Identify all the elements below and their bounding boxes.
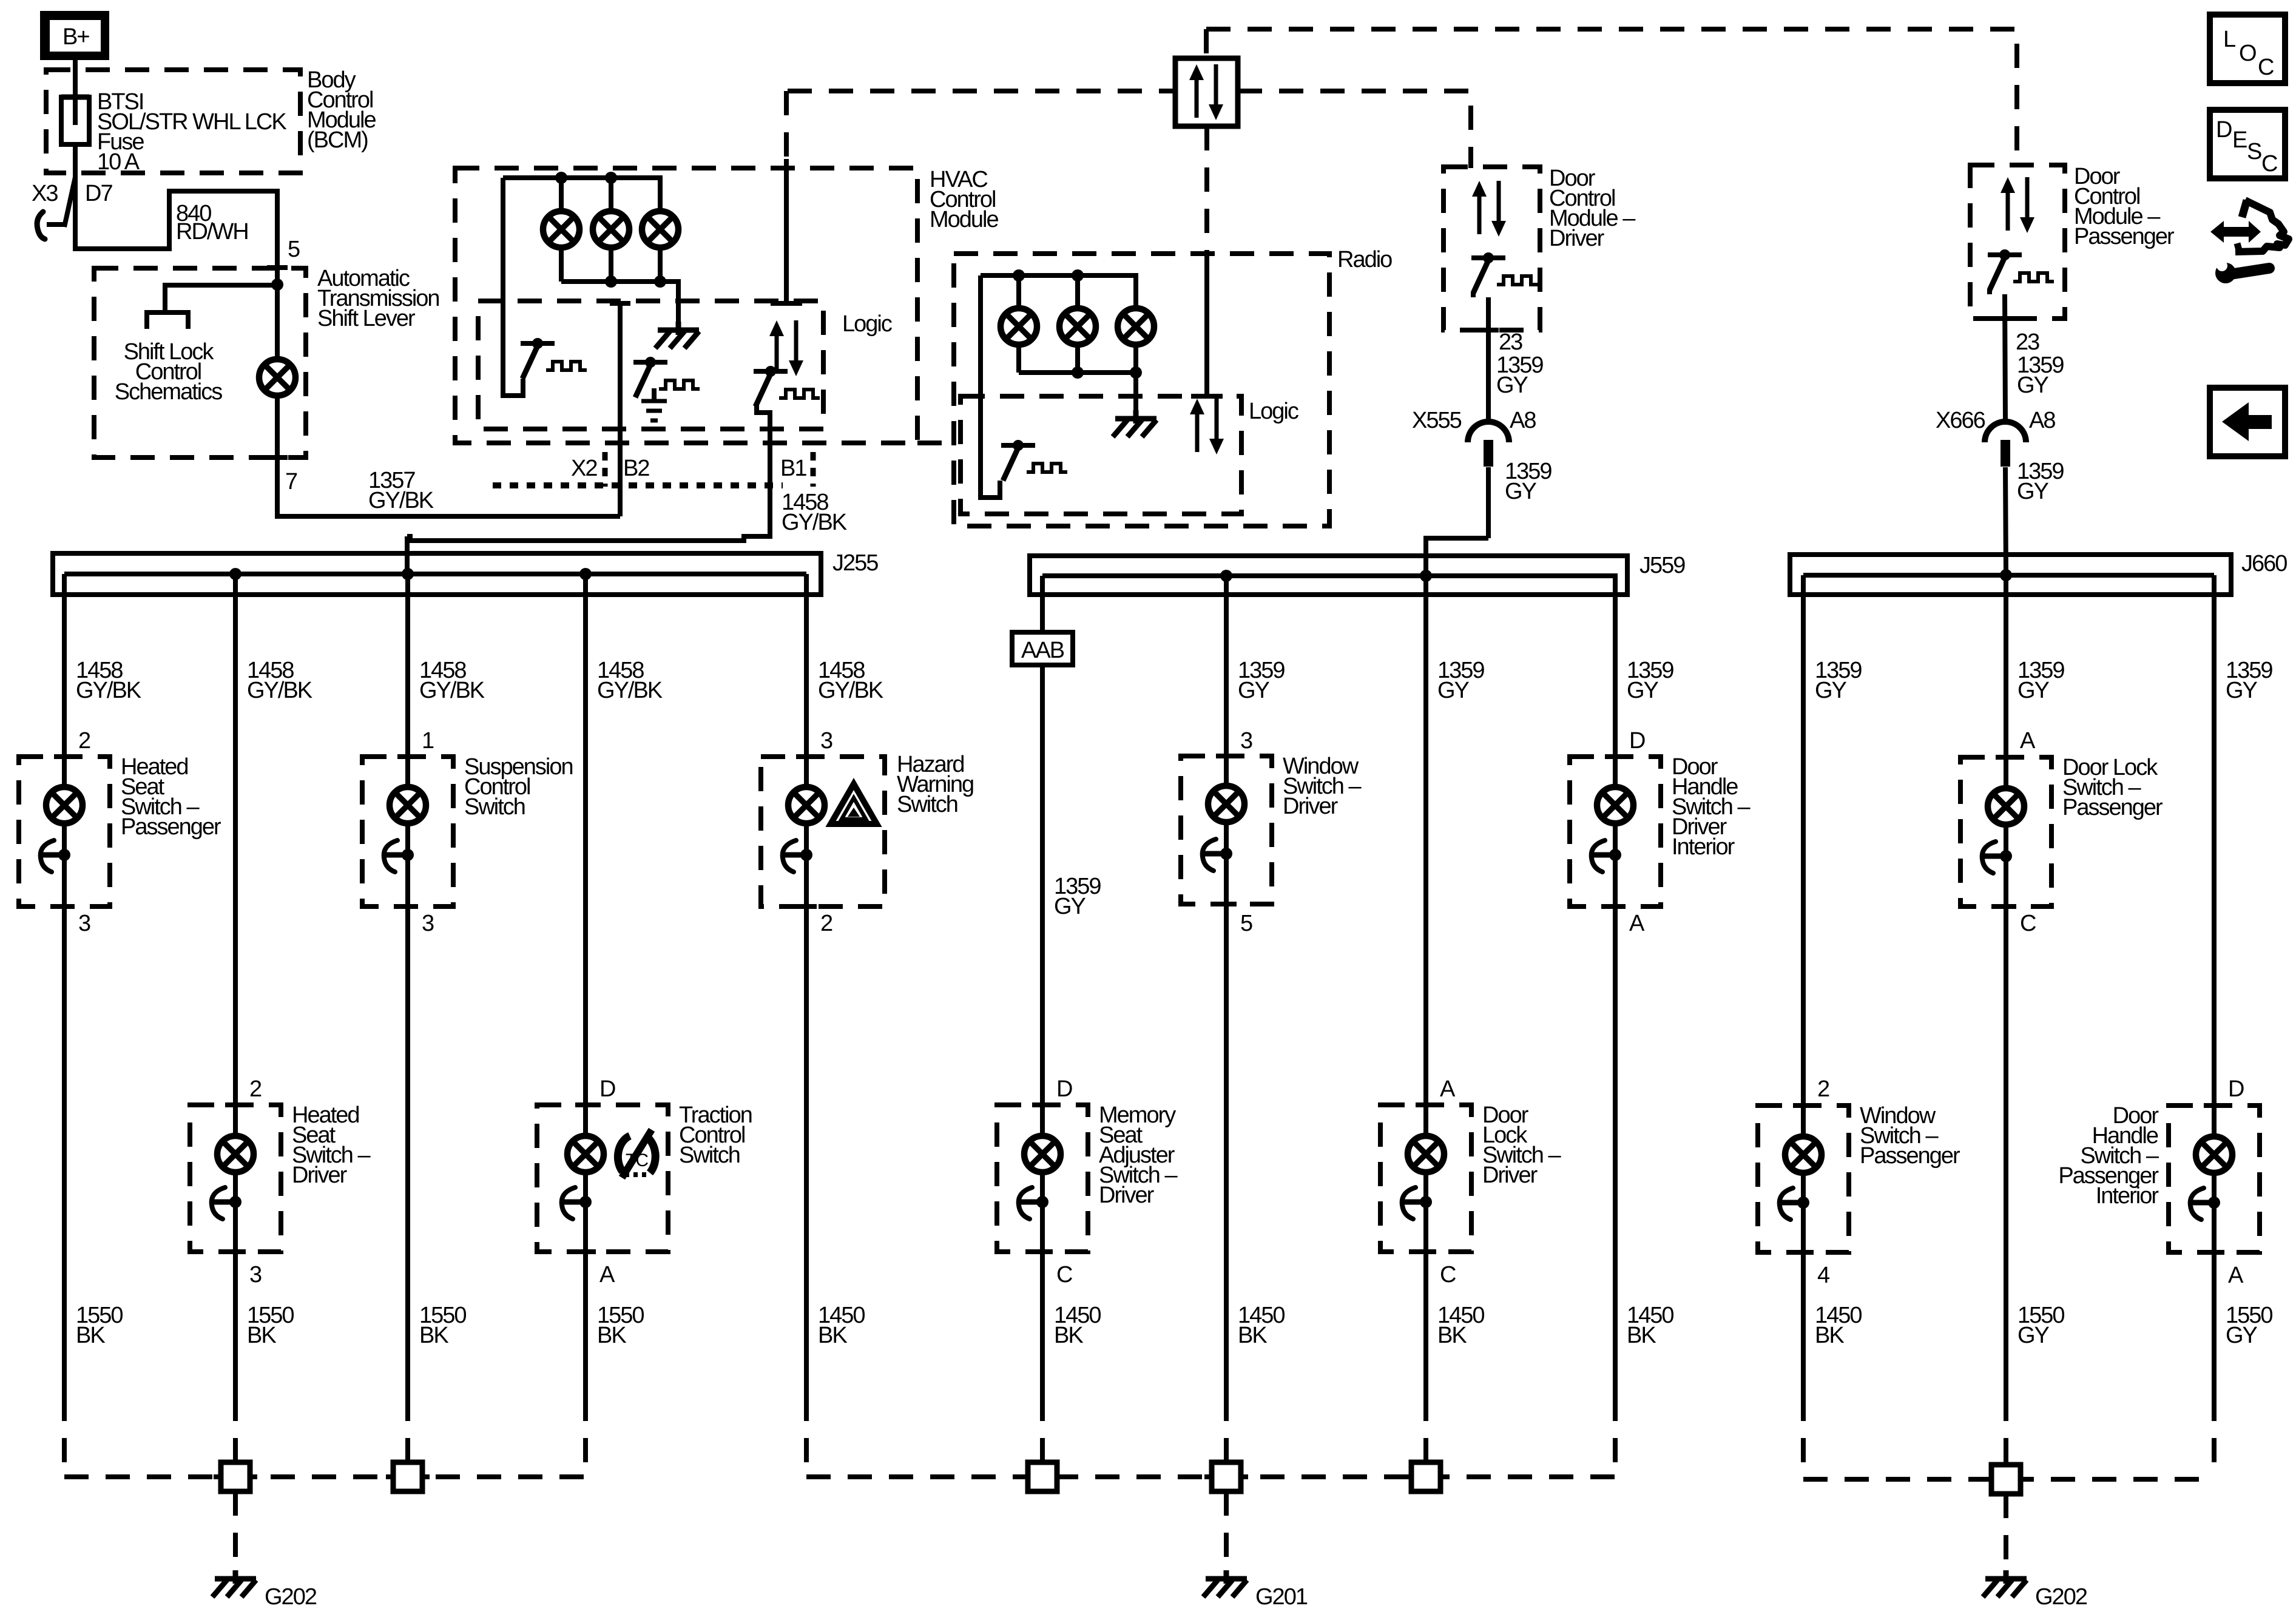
- wire 1359 GY to J660: [2005, 459, 2064, 575]
- svg-text:Passenger: Passenger: [1860, 1143, 1960, 1169]
- svg-text:RD/WH: RD/WH: [176, 219, 248, 245]
- wire fuse down: [73, 144, 78, 177]
- svg-text:1: 1: [422, 728, 434, 754]
- splice square middle 2: [1204, 1462, 1248, 1491]
- svg-text:Driver: Driver: [292, 1163, 348, 1188]
- ground logic earth: [641, 401, 667, 420]
- svg-text:Interior: Interior: [2096, 1183, 2159, 1209]
- switch contact door lock driver: [1402, 1187, 1432, 1219]
- icon box LOC: [2210, 15, 2285, 83]
- svg-text:23: 23: [1499, 329, 1522, 355]
- switch contact window switch driver: [1203, 839, 1232, 871]
- svg-text:BK: BK: [1627, 1323, 1656, 1348]
- lamp suspension control: [390, 757, 426, 906]
- module box HVAC Control Module: [455, 167, 998, 443]
- svg-text:2: 2: [820, 911, 832, 936]
- lamp window switch passenger: [1785, 1106, 1822, 1252]
- svg-text:BK: BK: [818, 1323, 847, 1348]
- ground bus middle dashed: [806, 1474, 1615, 1479]
- switch contact heated seat passenger: [41, 840, 70, 872]
- updown arrows DCM driver: [1472, 181, 1506, 237]
- transistor switch DCM passenger: [1988, 249, 2054, 294]
- svg-text:BK: BK: [1815, 1323, 1844, 1348]
- data link hub box: [1175, 58, 1238, 126]
- svg-text:Schematics: Schematics: [115, 379, 222, 405]
- wire B+ to fuse: [73, 60, 78, 97]
- svg-text:Passenger: Passenger: [121, 814, 221, 840]
- svg-text:D: D: [2216, 117, 2232, 143]
- wire 1550 BK column 4: [586, 1252, 644, 1477]
- wire 1550 BK column 2: [235, 1252, 294, 1462]
- lamp shift lever illumination: [259, 285, 295, 457]
- wire 1359 GY column door handle driver: [1615, 576, 1673, 757]
- svg-text:C: C: [1440, 1262, 1456, 1288]
- wire B2 output: [610, 303, 630, 516]
- splice square left 2: [386, 1462, 430, 1491]
- svg-text:BK: BK: [247, 1323, 276, 1348]
- wire dashed interconnect top: [1206, 29, 2017, 166]
- splice square left 1: [214, 1462, 257, 1491]
- switch contact traction control: [562, 1187, 592, 1219]
- svg-text:GY: GY: [1815, 678, 1847, 703]
- svg-text:D: D: [599, 1076, 615, 1102]
- ground G202 right: [1983, 1570, 2087, 1610]
- updown arrows DCM passenger: [2001, 177, 2034, 233]
- svg-text:2: 2: [249, 1076, 262, 1102]
- svg-text:3: 3: [820, 728, 832, 754]
- svg-text:Shift Lever: Shift Lever: [317, 306, 416, 331]
- switch contact heated seat driver: [212, 1187, 241, 1219]
- lamp HVAC illumination 1: [543, 211, 579, 248]
- splice square right: [1984, 1465, 2028, 1494]
- svg-text:L: L: [2223, 27, 2235, 52]
- svg-text:3: 3: [422, 911, 434, 936]
- shift lock solenoid bracket: [147, 312, 188, 329]
- svg-text:A8: A8: [1510, 408, 1536, 433]
- wire dashed to G202 right: [2004, 1494, 2008, 1573]
- dashed notch HVAC to Radio: [917, 441, 954, 445]
- wire Radio left feed: [981, 275, 1000, 498]
- wire 1450 BK column door handle driver: [1615, 906, 1673, 1477]
- wire 1450 BK column 5: [806, 906, 865, 1477]
- wire 1359 GY to J559: [1426, 459, 1551, 576]
- svg-text:Interior: Interior: [1672, 834, 1735, 860]
- svg-text:3: 3: [249, 1262, 262, 1288]
- wire 1450 BK column AAB: [1042, 1252, 1101, 1462]
- switch contact door handle passenger: [2190, 1188, 2220, 1220]
- svg-text:Switch: Switch: [679, 1143, 740, 1168]
- module box Radio Logic: [961, 396, 1298, 514]
- wire 1450 BK column window driver: [1226, 904, 1285, 1462]
- svg-text:GY: GY: [2017, 1323, 2050, 1348]
- connector X555 pin A8: [1412, 408, 1536, 467]
- transistor switch HVAC output 2: [633, 357, 700, 400]
- switch box Heated Seat Switch - Driver: [190, 1102, 371, 1252]
- ground chassis inside HVAC logic: [655, 322, 699, 348]
- lamp HVAC illumination 3: [642, 211, 678, 248]
- svg-text:3: 3: [78, 911, 90, 936]
- wire branch to shift lock bracket: [165, 285, 277, 312]
- splice square middle 1: [1021, 1462, 1064, 1491]
- svg-text:Module: Module: [930, 207, 998, 232]
- svg-text:GY: GY: [2226, 1323, 2258, 1348]
- svg-text:(BCM): (BCM): [307, 127, 368, 153]
- lamp door lock driver: [1408, 1105, 1444, 1252]
- svg-text:Driver: Driver: [1482, 1163, 1538, 1188]
- svg-text:A8: A8: [2029, 408, 2055, 433]
- svg-text:2: 2: [1817, 1076, 1829, 1102]
- svg-text:G202: G202: [2035, 1584, 2087, 1610]
- svg-text:GY/BK: GY/BK: [247, 678, 312, 703]
- svg-text:5: 5: [1240, 911, 1252, 936]
- svg-text:7: 7: [285, 469, 297, 495]
- svg-text:BK: BK: [1437, 1323, 1467, 1348]
- wire 1458 GY/BK column 4: [586, 574, 663, 1105]
- wire dashed HVAC to hub: [788, 89, 1175, 93]
- switch box Window Switch - Driver: [1181, 754, 1362, 904]
- wire 1359 GY column window driver: [1226, 576, 1285, 756]
- wire 1359 GY column door lock driver: [1426, 576, 1484, 1105]
- svg-text:BK: BK: [76, 1323, 105, 1348]
- splice pack J255: [53, 550, 878, 595]
- wire 840 RD/WH: [75, 175, 277, 285]
- lamp heated seat driver: [217, 1105, 254, 1252]
- switch box Memory Seat Adjuster Switch - Driver: [997, 1102, 1178, 1252]
- wire HVAC left feed: [503, 178, 523, 396]
- wire 1458 GY/BK column 1: [64, 574, 141, 757]
- switch contact window switch passenger: [1780, 1188, 1809, 1220]
- svg-text:Logic: Logic: [842, 311, 892, 337]
- svg-text:E: E: [2232, 127, 2247, 153]
- svg-text:BK: BK: [419, 1323, 448, 1348]
- wire 1458 GY/BK column 5 hazard: [806, 574, 883, 757]
- connector X3 / D7: [32, 177, 112, 239]
- svg-text:C: C: [2020, 911, 2036, 936]
- switch contact hazard warning: [783, 840, 812, 872]
- lamp Radio illumination 2: [1059, 308, 1096, 345]
- wire dashed feed to HVAC logic: [771, 91, 802, 303]
- wire 1359 GY column window passenger: [1803, 575, 1862, 1106]
- svg-text:B2: B2: [623, 456, 649, 481]
- wire 1359 GY column door handle passenger: [2214, 575, 2272, 1106]
- svg-text:GY: GY: [1505, 479, 1537, 504]
- module box Radio: [954, 247, 1392, 526]
- wire dashed feed to Radio logic: [1191, 126, 1223, 396]
- wire 1458 GY/BK column 2: [235, 574, 312, 1105]
- wire 1357 GY/BK: [277, 457, 620, 516]
- lamp memory seat: [1024, 1105, 1061, 1252]
- switch box Heated Seat Switch - Passenger: [19, 754, 221, 906]
- lamp heated seat passenger: [46, 757, 83, 906]
- ground bus right dashed: [1803, 1477, 2214, 1482]
- svg-text:X555: X555: [1412, 408, 1462, 433]
- transistor switch Radio output: [1001, 440, 1067, 481]
- svg-text:5: 5: [288, 237, 300, 262]
- lamp HVAC illumination 2: [593, 211, 629, 248]
- svg-text:4: 4: [1817, 1263, 1830, 1288]
- switch box Door Lock Switch - Driver: [1380, 1102, 1561, 1252]
- svg-text:GY: GY: [2226, 678, 2258, 703]
- svg-text:C: C: [2261, 151, 2277, 177]
- lamp door handle driver: [1597, 757, 1633, 906]
- svg-text:Driver: Driver: [1549, 226, 1605, 251]
- switch box Suspension Control Switch: [362, 754, 573, 906]
- wire column AAB: [1040, 576, 1045, 632]
- svg-text:GY: GY: [1054, 894, 1086, 919]
- ground G202 left: [212, 1570, 317, 1610]
- ground bus left dashed: [64, 1474, 586, 1479]
- svg-text:23: 23: [2016, 329, 2039, 355]
- svg-text:GY/BK: GY/BK: [419, 678, 485, 703]
- svg-text:GY/BK: GY/BK: [368, 488, 434, 513]
- wire 1550 GY column door lock passenger: [2006, 906, 2064, 1465]
- icon box back arrow: [2210, 388, 2285, 456]
- wire dashed hub top: [1204, 29, 1209, 58]
- svg-text:10 A: 10 A: [97, 149, 140, 175]
- wire 1550 GY column door handle passenger: [2214, 1252, 2272, 1479]
- module box Door Control Module - Passenger: [1970, 164, 2175, 319]
- switch contact door handle driver: [1592, 840, 1621, 872]
- svg-text:O: O: [2239, 41, 2256, 66]
- svg-text:Switch: Switch: [464, 794, 525, 820]
- svg-text:B1: B1: [780, 456, 806, 481]
- lamp hazard warning: [788, 757, 825, 906]
- power symbol B+: [40, 11, 109, 60]
- wire Radio lamp bottom bus: [1019, 347, 1142, 415]
- wire 1450 BK column door lock driver: [1426, 1252, 1484, 1462]
- svg-text:GY: GY: [1496, 373, 1528, 398]
- lamp window switch driver: [1208, 756, 1244, 904]
- tick shift box bottom: [267, 457, 288, 458]
- svg-text:BK: BK: [1238, 1323, 1267, 1348]
- icon box DESC: [2210, 110, 2285, 178]
- switch contact memory seat: [1019, 1187, 1048, 1219]
- svg-text:J660: J660: [2241, 551, 2287, 576]
- svg-text:A: A: [1440, 1076, 1456, 1102]
- svg-text:GY/BK: GY/BK: [818, 678, 883, 703]
- icon traction control: [618, 1130, 655, 1178]
- svg-text:AAB: AAB: [1021, 638, 1064, 663]
- wire DCM passenger output pin 23: [1995, 294, 2064, 420]
- ground chassis inside Radio logic: [1113, 410, 1156, 437]
- svg-text:Passenger: Passenger: [2074, 224, 2175, 249]
- lamp traction control: [567, 1105, 604, 1252]
- node junction at pin 5: [271, 279, 283, 291]
- lamp door handle passenger: [2196, 1106, 2232, 1252]
- svg-text:GY: GY: [1238, 678, 1270, 703]
- wire 1359 GY column door lock passenger: [2006, 575, 2064, 757]
- ground G201: [1203, 1570, 1308, 1610]
- svg-text:GY/BK: GY/BK: [782, 510, 847, 535]
- switch contact door lock passenger: [1982, 842, 2012, 873]
- svg-text:D: D: [1629, 728, 1645, 754]
- wire DCM driver output pin 23: [1478, 297, 1543, 420]
- svg-text:G202: G202: [265, 1584, 317, 1610]
- fuse BTSI SOL/STR WHL LCK 10A: [61, 89, 286, 175]
- svg-text:C: C: [1056, 1262, 1072, 1288]
- module box Automatic Transmission Shift Lever: [94, 266, 439, 457]
- svg-text:Logic: Logic: [1249, 399, 1298, 424]
- transistor switch HVAC output 3 (B1): [754, 366, 820, 407]
- svg-text:A: A: [2228, 1263, 2244, 1288]
- transistor switch DCM driver: [1471, 252, 1538, 297]
- svg-text:X3: X3: [32, 181, 58, 206]
- splice square middle 3: [1404, 1462, 1448, 1491]
- transistor switch HVAC output 1: [521, 338, 587, 379]
- switch contact suspension control: [384, 840, 414, 872]
- wire dashed to G201: [1224, 1491, 1229, 1573]
- updown arrows Radio logic: [1190, 399, 1224, 454]
- wire 1359 GY column AAB: [1042, 665, 1101, 1105]
- svg-text:X2: X2: [571, 456, 597, 481]
- wire 1550 BK column 1: [64, 906, 123, 1477]
- connector X2 labels: [493, 452, 813, 487]
- svg-text:C: C: [2258, 55, 2274, 80]
- svg-text:3: 3: [1240, 728, 1252, 754]
- svg-text:Radio: Radio: [1337, 247, 1392, 272]
- wire dashed to G202 left: [233, 1491, 238, 1573]
- module box Body Control Module (BCM): [46, 67, 376, 173]
- svg-text:GY: GY: [2017, 479, 2049, 504]
- lamp door lock passenger: [1988, 757, 2024, 906]
- module box Door Control Module - Driver: [1443, 166, 1636, 330]
- svg-text:B+: B+: [62, 24, 89, 50]
- connector X666 pin A8: [1936, 408, 2055, 467]
- switch box Window Switch - Passenger: [1758, 1103, 1960, 1252]
- svg-text:BK: BK: [1054, 1323, 1083, 1348]
- svg-text:GY/BK: GY/BK: [76, 678, 141, 703]
- svg-text:S: S: [2247, 139, 2261, 164]
- svg-text:J255: J255: [832, 550, 878, 576]
- svg-text:A: A: [2020, 728, 2036, 754]
- wire HVAC lamp top bus: [503, 172, 660, 209]
- wire dashed hub to DCM driver: [1238, 91, 1471, 168]
- svg-text:Driver: Driver: [1283, 794, 1339, 819]
- svg-text:GY/BK: GY/BK: [597, 678, 663, 703]
- wire 1450 BK column window passenger: [1803, 1252, 1862, 1479]
- svg-text:D: D: [1056, 1076, 1072, 1102]
- svg-text:GY: GY: [2017, 678, 2050, 703]
- switch box Door Handle Switch - Driver Interior: [1570, 754, 1751, 906]
- connector AAB: [1012, 632, 1073, 665]
- svg-text:X666: X666: [1936, 408, 1985, 433]
- label Shift Lock Control Schematics: [115, 339, 222, 405]
- splice pack J660: [1790, 551, 2287, 595]
- icon hazard triangle: [831, 784, 877, 824]
- icon hand with arrow and wrench: [2210, 200, 2289, 283]
- svg-text:GY: GY: [2017, 373, 2049, 398]
- wire B1 output 1458 GY/BK: [407, 405, 847, 541]
- svg-text:Passenger: Passenger: [2062, 795, 2163, 820]
- svg-text:Driver: Driver: [1099, 1183, 1155, 1208]
- svg-text:A: A: [599, 1262, 615, 1288]
- lamp Radio illumination 1: [1001, 308, 1037, 345]
- svg-text:D: D: [2228, 1076, 2244, 1102]
- svg-text:A: A: [1629, 911, 1645, 936]
- switch box Door Handle Switch - Passenger Interior: [2058, 1103, 2260, 1252]
- svg-text:D7: D7: [85, 181, 112, 206]
- svg-text:TC: TC: [626, 1150, 648, 1170]
- switch box Traction Control Switch: [537, 1102, 752, 1252]
- wire Radio lamp top bus: [981, 269, 1136, 306]
- lamp Radio illumination 3: [1118, 308, 1154, 345]
- svg-text:2: 2: [78, 728, 90, 754]
- switch box Door Lock Switch - Passenger: [1960, 755, 2163, 906]
- svg-text:J559: J559: [1639, 553, 1685, 578]
- wire 1550 BK column 3: [408, 906, 466, 1462]
- updown arrows HVAC logic: [769, 320, 803, 376]
- splice pack J559: [1030, 553, 1685, 595]
- wire 1458 GY/BK column 3: [408, 574, 485, 757]
- svg-text:GY: GY: [1627, 678, 1659, 703]
- module box HVAC Logic: [478, 301, 892, 429]
- svg-text:G201: G201: [1255, 1584, 1308, 1610]
- wire HVAC lamp bottom bus: [561, 250, 678, 326]
- svg-text:BK: BK: [597, 1323, 626, 1348]
- svg-text:GY: GY: [1437, 678, 1470, 703]
- wire junction to J255 feed: [405, 536, 410, 574]
- svg-text:Switch: Switch: [897, 792, 957, 817]
- switch box Hazard Warning Switch: [761, 752, 973, 906]
